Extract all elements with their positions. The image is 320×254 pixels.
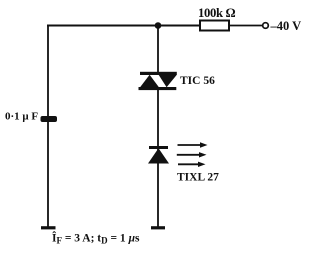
svg-text:TIC 56: TIC 56 bbox=[180, 75, 215, 87]
terminal tick left bbox=[41, 226, 56, 229]
light emission arrow 3 bbox=[178, 162, 206, 167]
light emission arrow 2 bbox=[177, 152, 207, 157]
svg-text:ÎF = 3 A; tD = 1 μs: ÎF = 3 A; tD = 1 μs bbox=[52, 231, 140, 246]
svg-text:0·1 μ F: 0·1 μ F bbox=[5, 111, 38, 123]
wire resistor to terminal bbox=[229, 25, 263, 27]
terminal tick middle bbox=[151, 226, 165, 229]
resistor R1 100k bbox=[200, 21, 229, 31]
LED D1 TIXL 27 bbox=[148, 146, 169, 164]
svg-text:–40 V: –40 V bbox=[270, 19, 302, 33]
capacitor C1 0.1uF bbox=[41, 116, 58, 122]
svg-text:TIXL 27: TIXL 27 bbox=[177, 172, 219, 184]
node junction dot bbox=[155, 22, 162, 29]
wire middle vertical upper bbox=[157, 26, 159, 75]
wire top horizontal bbox=[47, 25, 200, 27]
wire left vertical bbox=[47, 25, 49, 228]
light emission arrow 1 bbox=[178, 142, 208, 147]
terminal -40V circle bbox=[263, 23, 269, 29]
diac U1 TIC 56 bbox=[139, 72, 177, 90]
svg-text:100k Ω: 100k Ω bbox=[198, 6, 236, 20]
wire middle vertical lower bbox=[157, 88, 159, 228]
